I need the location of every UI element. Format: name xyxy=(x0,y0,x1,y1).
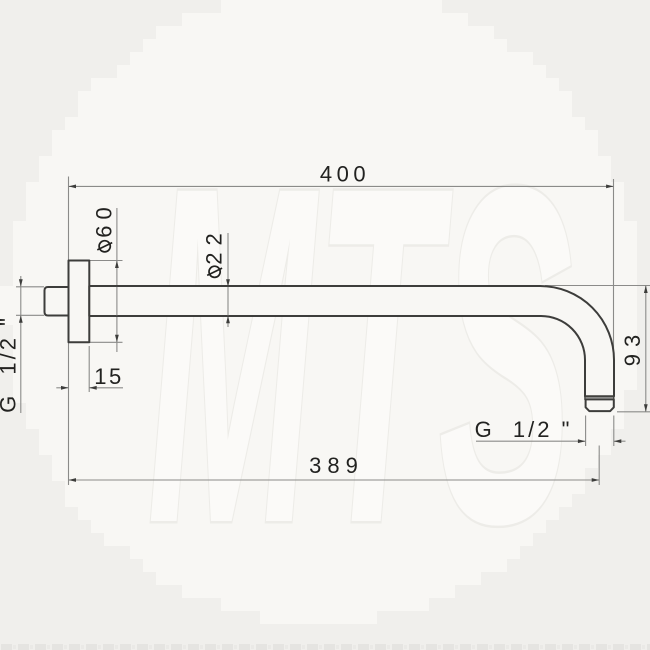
svg-text:400: 400 xyxy=(320,162,370,187)
svg-text:G 1/2 ": G 1/2 " xyxy=(475,417,573,442)
svg-text:389: 389 xyxy=(309,453,364,478)
svg-text:15: 15 xyxy=(94,364,123,389)
svg-text:93: 93 xyxy=(620,328,645,366)
svg-text:60: 60 xyxy=(92,201,117,237)
svg-text:22: 22 xyxy=(202,226,227,264)
svg-text:G 1/2 ": G 1/2 " xyxy=(0,315,21,413)
